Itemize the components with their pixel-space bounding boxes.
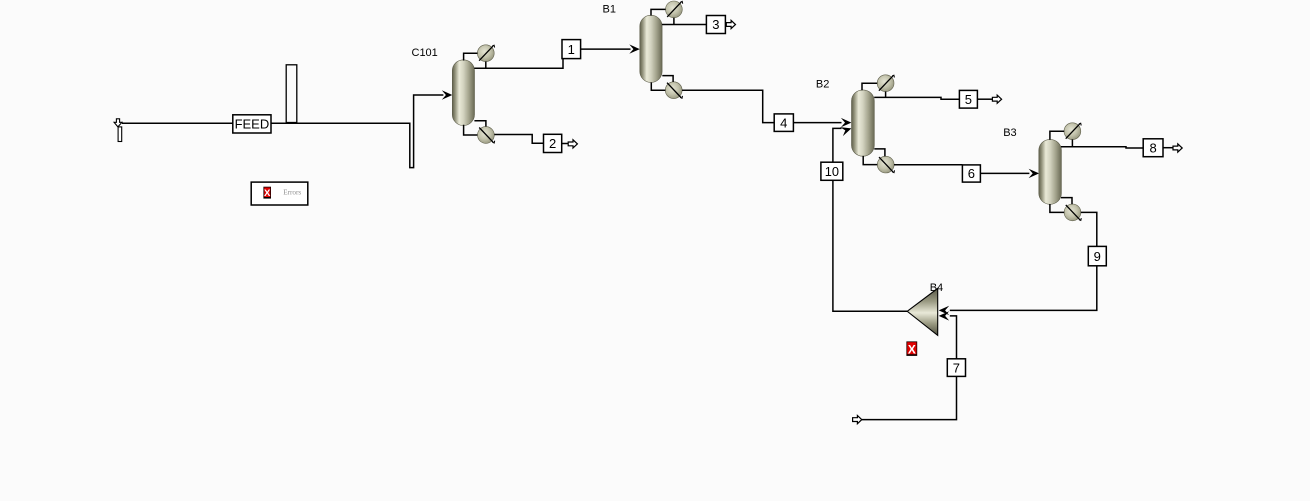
svg-text:1: 1: [568, 42, 575, 57]
wire stream 4 run: [682, 90, 774, 122]
wire B3 top to condenser: [1050, 131, 1064, 140]
svg-text:2: 2: [549, 136, 556, 151]
wire B1 condenser outlet down: [673, 18, 675, 25]
stream label box 10: [821, 162, 843, 180]
wire B2 reboiler return: [874, 149, 885, 157]
wire stream 2 run: [494, 135, 543, 144]
column B1 body: [640, 15, 662, 82]
arrowhead stream 9 into B4: [939, 306, 950, 315]
arrowhead stream 10 into B2: [840, 124, 853, 136]
product/feed arrow stream 2 product: [568, 140, 577, 148]
arrowhead stream 6 into B3: [1029, 169, 1040, 178]
column B3 body: [1039, 139, 1062, 204]
product/feed arrow stream 5 product: [992, 95, 1001, 103]
heat exchanger B1 reboiler: [665, 82, 682, 99]
svg-text:C101: C101: [412, 47, 438, 59]
wire B2 reflux + distillate to box 5: [874, 97, 959, 99]
svg-text:3: 3: [712, 17, 719, 32]
product/feed arrow stream 8 product: [1173, 144, 1182, 152]
red error icon errors icon: [264, 187, 271, 199]
stream label box 7: [947, 359, 965, 377]
arrowhead stream 7 into B4: [939, 311, 950, 320]
compressor B4: [907, 288, 938, 335]
stream label box 6: [962, 165, 980, 182]
wire FEED inlet run: [122, 122, 233, 124]
product/feed arrow stream 3 product: [726, 20, 735, 28]
wire B1 bottom to reboiler: [651, 83, 665, 91]
wire C101 bottom to reboiler: [464, 125, 478, 135]
svg-text:B2: B2: [816, 78, 829, 90]
arrowhead stream 4 into B2: [841, 118, 852, 127]
svg-text:B3: B3: [1003, 127, 1016, 139]
stream label box 5: [959, 90, 977, 108]
wire FEED run to C101: [271, 95, 443, 168]
heat exchanger B3 condenser: [1064, 123, 1081, 140]
column B2 body: [852, 90, 875, 156]
wire stream 5 tail: [977, 98, 992, 100]
stream label box 1: [562, 40, 581, 59]
wire stream 3 tail: [725, 24, 726, 26]
wire C101 top to condenser: [464, 53, 478, 60]
wire stream 10 recycle run: [833, 180, 907, 311]
stream label box 4: [774, 114, 793, 131]
wire stream 9 down and to B4: [950, 266, 1097, 311]
wire B1 reflux + distillate to box 3: [662, 24, 707, 26]
wire stream 1 to B1: [581, 48, 631, 50]
wire B3 reflux + distillate to box 8: [1061, 147, 1143, 148]
wire stream 2 tail: [562, 143, 569, 145]
wire B2 top to condenser: [862, 83, 877, 90]
heat exchanger C101 reboiler: [478, 127, 495, 144]
wire condenser outlet down: [485, 62, 487, 69]
stream label box 9: [1088, 246, 1106, 265]
wire stream 10 up to B2: [833, 128, 842, 162]
stream label box 2: [544, 134, 562, 152]
wire reflux + distillate to box 1: [474, 59, 563, 69]
heat exchanger B2 reboiler: [877, 156, 894, 173]
svg-text:FEED: FEED: [235, 117, 270, 132]
FEED label box: [233, 115, 271, 133]
stream label box 3: [706, 16, 725, 34]
svg-text:8: 8: [1149, 140, 1156, 155]
wire B3 bottom to reboiler: [1050, 204, 1064, 212]
feed stream origin symbol: [114, 119, 122, 142]
arrowhead stream 1 into B1: [629, 44, 640, 53]
wire B2 bottom to reboiler: [863, 156, 877, 165]
svg-text:4: 4: [780, 115, 787, 130]
product/feed arrow stream 7 feed: [853, 416, 862, 424]
heat exchanger B2 condenser: [877, 75, 894, 92]
wire B1 top to condenser: [651, 9, 666, 15]
red error icon B4 error flag: [907, 342, 917, 357]
wire B2 condenser outlet down: [885, 92, 887, 98]
svg-text:6: 6: [968, 166, 975, 181]
svg-text:7: 7: [953, 360, 960, 375]
svg-text:X: X: [264, 188, 271, 199]
wire stream 4 to B2: [793, 122, 841, 124]
svg-text:B1: B1: [603, 4, 616, 16]
svg-text:5: 5: [965, 92, 972, 107]
wire B1 reboiler return: [662, 76, 673, 82]
wire stream 7 run: [862, 377, 957, 420]
wire C101 reboiler return: [474, 121, 486, 127]
svg-text:10: 10: [825, 164, 839, 179]
svg-text:X: X: [908, 342, 916, 356]
wire B3 condenser outlet down: [1071, 139, 1073, 147]
heat exchanger B3 reboiler: [1064, 204, 1081, 221]
heat exchanger C101 condenser: [477, 45, 494, 62]
wire stream 8 tail: [1163, 147, 1173, 149]
heat exchanger B1 condenser: [666, 1, 683, 18]
wire stream 6 to B3: [980, 172, 1029, 174]
column C101 body: [452, 60, 474, 126]
svg-text:Errors: Errors: [283, 189, 301, 197]
wire stream 6 run: [894, 164, 962, 166]
svg-text:9: 9: [1094, 249, 1101, 264]
arrowhead FEED into C101: [442, 90, 453, 99]
wire B3 reboiler return: [1061, 198, 1072, 205]
stream label box 8: [1143, 139, 1163, 157]
wire stream 9 run: [1081, 212, 1097, 246]
errors status box: [251, 182, 308, 205]
riser rectangle on FEED line: [286, 65, 297, 123]
wire stream 7 up to B4: [950, 316, 957, 359]
